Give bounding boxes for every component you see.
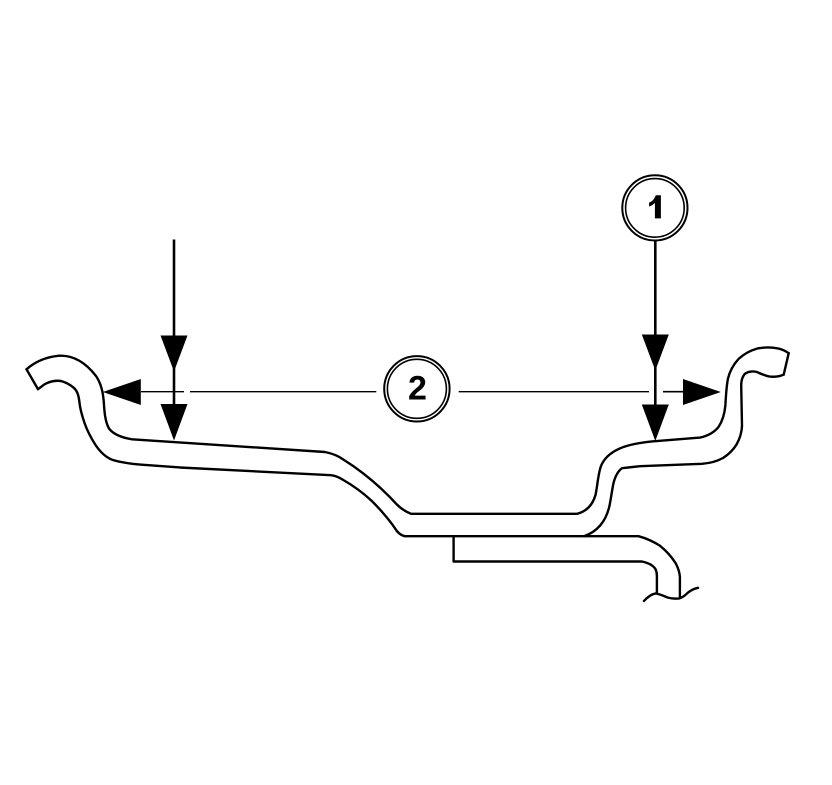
leader line callout 1 bbox=[654, 241, 657, 438]
rim inner surface line bbox=[38, 371, 784, 536]
arrowhead callout-1 leader upper bbox=[642, 335, 669, 371]
dimension line 2 segment d bbox=[663, 391, 686, 393]
callout circle 2 inner ring bbox=[387, 359, 446, 418]
arrowhead left leader upper bbox=[161, 336, 188, 372]
barrel-to-disc pipe outer bend bbox=[584, 536, 680, 597]
callout circle 1 inner ring bbox=[626, 179, 685, 238]
dimension line 2 segment b bbox=[190, 391, 376, 393]
dimension line 2 segment a bbox=[141, 391, 184, 393]
callout circle 2 outer ring bbox=[384, 356, 449, 421]
arrowhead callout-1 leader lower bbox=[642, 405, 669, 442]
arrowhead dimension left bbox=[103, 379, 141, 405]
leader line left (no bubble) bbox=[173, 240, 176, 438]
disc step and pipe inner bend bbox=[454, 536, 657, 592]
dimension line 2 segment c bbox=[459, 391, 649, 393]
rim outer surface line bbox=[27, 347, 789, 513]
break squiggle bbox=[644, 588, 698, 601]
callout circle 1 outer ring bbox=[622, 175, 687, 240]
arrowhead left leader lower bbox=[161, 404, 188, 441]
svg-text:2: 2 bbox=[408, 370, 427, 408]
label digit 1 bbox=[649, 195, 661, 218]
left end cap bbox=[27, 369, 39, 389]
right end cap bbox=[784, 353, 789, 374]
arrowhead dimension right bbox=[683, 379, 721, 405]
